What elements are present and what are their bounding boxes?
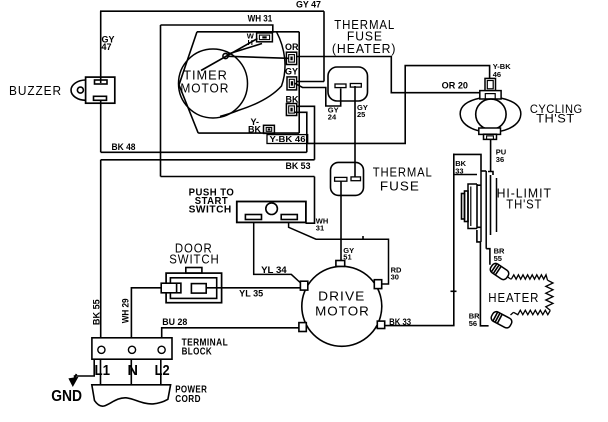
wire tick at thermal fuse right xyxy=(362,236,364,239)
timer connector W-H outer xyxy=(257,33,273,42)
svg-text:33: 33 xyxy=(455,167,463,176)
buzzer terminal bottom xyxy=(94,96,107,100)
svg-text:OR 20: OR 20 xyxy=(442,80,468,90)
wire BU28 terminal L2 to motor xyxy=(162,328,299,338)
door switch contact xyxy=(191,284,206,294)
heater coil link BR55 xyxy=(508,277,512,279)
wire GY25 thermal fuse heater to thermal fuse xyxy=(354,86,356,178)
drive motor right lower tab xyxy=(377,321,384,328)
wire GY to timer connector xyxy=(297,81,324,83)
buzzer dome xyxy=(71,80,86,100)
wire BK55 right vertical to BK connector xyxy=(297,106,315,160)
wire terminal L1 to power cord xyxy=(100,359,102,384)
svg-text:31: 31 xyxy=(316,224,324,233)
wire BK33 motor to hi-limit xyxy=(385,154,454,326)
heater coil right run xyxy=(546,280,553,310)
hi-limit bracket bottom nub xyxy=(477,226,481,228)
timer hexagon top edge xyxy=(197,31,299,33)
buzzer body xyxy=(86,77,115,103)
drive motor top tab xyxy=(336,261,345,267)
svg-text:BK 55: BK 55 xyxy=(91,299,101,325)
svg-text:TH'ST: TH'ST xyxy=(506,197,542,212)
wire BK55 vertical to terminal L1 xyxy=(100,160,102,338)
timer connector Y-BK inner xyxy=(266,127,272,131)
svg-text:(HEATER): (HEATER) xyxy=(332,41,397,56)
svg-text:DRIVE: DRIVE xyxy=(318,288,365,303)
buzzer pilot circle xyxy=(77,87,83,93)
wire GY47 buzzer top vertical xyxy=(100,11,102,83)
svg-text:MOTOR: MOTOR xyxy=(315,303,370,318)
svg-text:24: 24 xyxy=(328,112,337,121)
hi-limit bracket inner xyxy=(476,184,478,229)
svg-text:GY 47: GY 47 xyxy=(296,0,321,10)
wire BK55 horizontal run xyxy=(101,159,315,161)
wire splice tick on BK33 vertical xyxy=(451,290,457,292)
terminal block screw N xyxy=(128,346,135,353)
svg-text:BK: BK xyxy=(286,95,299,105)
cycling thermostat right wing xyxy=(501,98,521,131)
svg-text:WH 31: WH 31 xyxy=(248,14,273,24)
timer connector BK outer xyxy=(286,104,296,116)
thermal fuse terminal right xyxy=(351,177,361,181)
timer contact arm line xyxy=(201,39,258,71)
wire WH31 push switch to motor RD30 xyxy=(289,222,389,284)
svg-text:Y-BK 46: Y-BK 46 xyxy=(270,134,306,144)
thermal fuse heater terminal GY25 xyxy=(350,84,361,88)
timer motor circle xyxy=(179,49,248,118)
svg-text:55: 55 xyxy=(494,254,502,263)
thermal fuse heater body xyxy=(328,67,368,101)
wire timer enclosure top edge xyxy=(161,25,273,33)
wire GY47 right vertical xyxy=(323,11,325,81)
svg-text:YL 34: YL 34 xyxy=(261,265,287,275)
cycling thermostat top plate xyxy=(480,91,501,99)
svg-text:36: 36 xyxy=(496,155,504,164)
svg-text:BK 33: BK 33 xyxy=(389,317,411,327)
svg-text:25: 25 xyxy=(357,110,365,119)
svg-text:TH'ST: TH'ST xyxy=(536,113,575,125)
wire GY47 top horizontal run xyxy=(100,10,324,12)
svg-text:GND: GND xyxy=(51,388,82,405)
timer connector W-H inner xyxy=(259,35,269,40)
svg-text:L2: L2 xyxy=(155,363,170,379)
timer connector GY pin xyxy=(291,81,293,85)
timer connector OR pin xyxy=(290,57,292,61)
wire GY24 from timer GY to thermal fuse heater xyxy=(295,83,341,106)
svg-text:SWITCH: SWITCH xyxy=(189,205,232,216)
svg-text:47: 47 xyxy=(102,42,112,52)
svg-text:51: 51 xyxy=(343,253,351,262)
wire Y-BK connector stub xyxy=(268,133,270,134)
wire PU36 cycling thermostat to hi-limit xyxy=(490,139,492,171)
thermal fuse heater terminal GY24 xyxy=(335,84,346,88)
timer connector Y-BK outer xyxy=(264,125,275,133)
push to start switch box xyxy=(237,202,306,223)
cycling thermostat top connector inner xyxy=(487,81,493,89)
wire YL35 door switch to motor xyxy=(207,287,300,289)
timer hexagon left diagonals xyxy=(179,32,198,133)
wire BK48 horizontal xyxy=(101,151,307,153)
wire hi-limit bracket flange xyxy=(454,174,477,176)
svg-text:MOTOR: MOTOR xyxy=(180,81,229,96)
svg-text:BUZZER: BUZZER xyxy=(9,83,62,98)
svg-text:N: N xyxy=(128,363,138,379)
heater coil top run xyxy=(512,275,548,280)
drive motor right upper tab xyxy=(374,280,381,289)
thermal fuse body xyxy=(331,162,364,195)
hi-limit right element outer xyxy=(490,175,492,235)
svg-text:BK 53: BK 53 xyxy=(286,161,311,171)
wire BK53 horizontal xyxy=(161,176,315,178)
svg-text:SWITCH: SWITCH xyxy=(169,252,219,267)
svg-text:BK 48: BK 48 xyxy=(112,142,136,152)
timer pivot line to OR contact xyxy=(228,56,289,58)
power cord body xyxy=(92,385,171,406)
wire terminal L2 to power cord xyxy=(160,359,162,384)
svg-text:WH 29: WH 29 xyxy=(121,298,131,323)
svg-text:YL 35: YL 35 xyxy=(239,289,263,299)
door switch outer box xyxy=(166,273,222,303)
wire YL34 push switch to motor xyxy=(254,222,302,283)
thermal fuse terminal left xyxy=(335,177,347,181)
hi-limit disc legs bridge xyxy=(481,170,486,172)
timer connector Y-BK pin xyxy=(268,128,271,130)
hi-limit stack bar 1 xyxy=(462,194,465,220)
timer pivot circle xyxy=(223,53,228,58)
wire GND tap xyxy=(74,359,95,376)
wire Y-BK46 from timer to cycling thermostat xyxy=(308,66,490,144)
timer connector W-H pin xyxy=(262,36,266,38)
heater terminal BR55 xyxy=(489,262,511,281)
svg-text:CORD: CORD xyxy=(175,394,201,405)
label box Y-BK 46 xyxy=(267,135,308,144)
cycling thermostat top connector outer xyxy=(485,78,496,90)
cycling thermostat bottom plate xyxy=(479,128,501,134)
wire timer enclosure left edge xyxy=(160,25,162,177)
wire BK48 right vertical to BK connector xyxy=(294,112,307,152)
timer connector BK pin xyxy=(290,108,292,112)
hi-limit stack bar 2 xyxy=(465,191,469,222)
terminal block box xyxy=(92,338,172,359)
hi-limit bracket inner line xyxy=(470,187,472,227)
timer connector GY inner xyxy=(289,79,294,87)
svg-text:L1: L1 xyxy=(95,363,111,379)
wire hi-limit leg to BR56 heater terminal xyxy=(477,230,489,326)
drive motor left lower tab xyxy=(299,323,306,332)
hi-limit disc right leg xyxy=(485,171,487,249)
svg-text:BLOCK: BLOCK xyxy=(182,347,213,358)
timer connector BK inner xyxy=(289,106,295,113)
svg-text:GY: GY xyxy=(285,67,298,77)
heater terminal BR56 xyxy=(490,310,513,329)
svg-text:46: 46 xyxy=(493,70,501,79)
svg-text:BK: BK xyxy=(248,125,261,135)
cycling thermostat left wing xyxy=(460,98,480,131)
svg-text:FUSE: FUSE xyxy=(380,178,420,193)
svg-text:BU 28: BU 28 xyxy=(162,317,187,327)
hi-limit bracket top nub xyxy=(477,184,481,186)
cycling thermostat disc xyxy=(476,99,506,129)
wire WH31 vertical to push switch xyxy=(306,177,315,224)
timer pivot arm line xyxy=(227,44,263,55)
hi-limit right element outer2 xyxy=(496,178,498,232)
heater coil link BR56 xyxy=(511,312,514,315)
wire buzzer bottom vertical xyxy=(100,100,102,152)
drive motor left upper tab xyxy=(300,281,307,290)
wire terminal N to power cord xyxy=(130,359,132,384)
wire BK33 top into hi-limit stack xyxy=(454,154,481,171)
svg-text:H: H xyxy=(248,38,253,47)
hi-limit bracket xyxy=(468,184,477,229)
timer cam beak curve xyxy=(220,32,285,117)
timer connector OR outer xyxy=(286,52,296,64)
push switch button circle xyxy=(266,203,278,215)
terminal block screw L1 xyxy=(98,346,105,353)
terminal block screw L2 xyxy=(158,346,165,353)
svg-text:30: 30 xyxy=(391,273,399,282)
door switch inner box xyxy=(170,278,216,299)
push switch terminal right xyxy=(281,215,297,220)
push switch terminal left xyxy=(245,215,261,220)
svg-text:HEATER: HEATER xyxy=(488,290,539,305)
svg-text:OR: OR xyxy=(285,42,299,52)
door switch top tab xyxy=(186,268,202,274)
timer connector GY outer xyxy=(287,77,297,90)
ground arrow xyxy=(68,377,78,387)
cycling thermostat bottom connector xyxy=(484,134,497,139)
wire OR20 from timer to cycling thermostat xyxy=(297,57,485,93)
hi-limit right element bridge xyxy=(488,172,493,176)
heater coil bottom run xyxy=(514,310,551,315)
drive motor circle xyxy=(302,266,382,346)
timer hexagon right edge xyxy=(298,32,300,133)
wire GY51 thermal fuse to drive motor xyxy=(340,182,342,261)
door switch left plug xyxy=(161,283,181,293)
wire WH29 door switch to terminal N xyxy=(131,288,161,338)
wire hi-limit to BR55 heater terminal xyxy=(486,249,490,265)
hi-limit disc left leg xyxy=(480,171,482,242)
timer connector OR inner xyxy=(289,55,295,63)
timer hexagon bottom edge xyxy=(198,132,299,134)
buzzer terminal top xyxy=(95,80,108,84)
svg-text:56: 56 xyxy=(469,319,477,328)
